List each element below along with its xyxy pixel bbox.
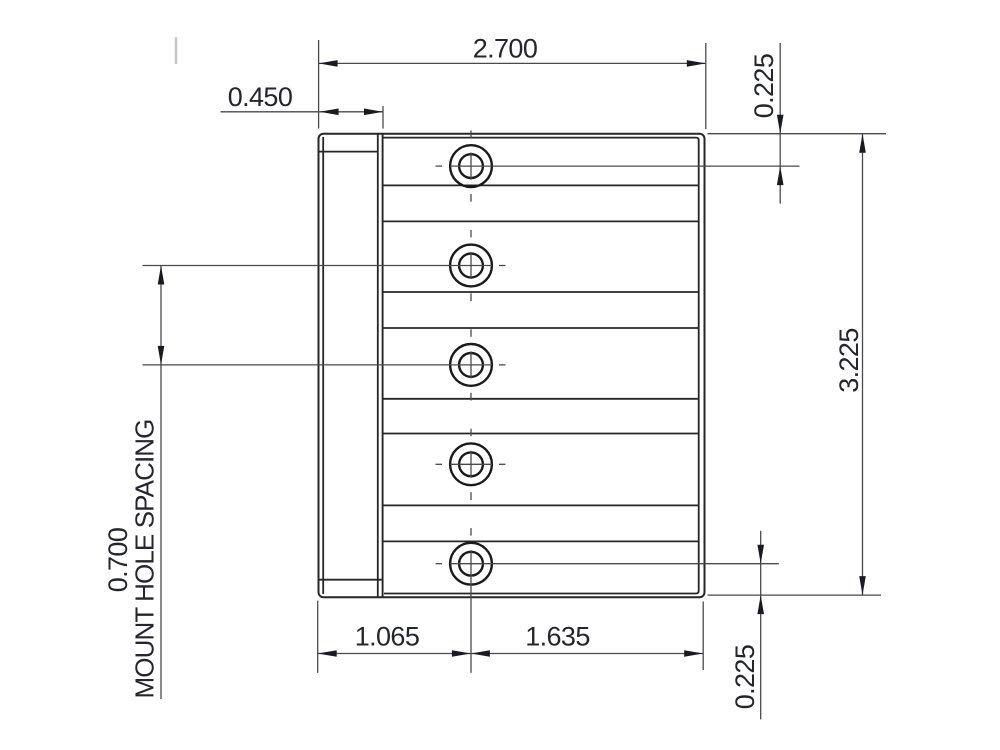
top edge extension line (right): [708, 133, 887, 135]
flange inner top bend line: [320, 151, 378, 153]
saddle groove line 2: [383, 220, 699, 222]
dimension 1.065/1.635 line: [318, 653, 704, 655]
svg-text:MOUNT HOLE SPACING: MOUNT HOLE SPACING: [130, 420, 160, 699]
hole 4: [450, 443, 492, 485]
dimension 1.635 arrows: [471, 650, 490, 657]
saddle groove line 6: [383, 433, 699, 435]
dimension 0.700 line (left): [160, 266, 162, 700]
svg-text:1.065: 1.065: [355, 622, 420, 652]
saddle groove line 5: [383, 398, 699, 400]
dimension 3.225 arrows: [859, 134, 866, 153]
hole 3: [450, 344, 492, 386]
dimension 2.700 line: [319, 62, 706, 64]
saddle groove line 3: [383, 291, 699, 293]
hole 1 centerlines: [436, 131, 800, 202]
flange inner left line: [322, 137, 324, 594]
dimension 1.065 arrows: [318, 650, 337, 657]
dimension 0.225 top line: [779, 43, 781, 204]
dimension 3.225 line: [862, 134, 864, 595]
saddle groove line 7: [383, 504, 699, 506]
saddle groove line 8: [383, 540, 699, 542]
dimension 0.450 extension line: [382, 106, 384, 129]
hole 2: [450, 245, 492, 287]
svg-text:1.635: 1.635: [525, 622, 590, 652]
plate outer outline: [319, 134, 705, 598]
saddle groove line 4: [383, 327, 699, 329]
bottom edge extension line (right): [708, 594, 882, 596]
hole 4 centerlines: [436, 429, 506, 500]
hole 1: [450, 145, 492, 187]
dimension 2.700 extension lines: [318, 40, 320, 129]
hole 5: [450, 543, 492, 585]
flange inner bottom bend line: [320, 579, 383, 581]
svg-text:0.225: 0.225: [730, 645, 760, 710]
saddle groove line 1: [383, 184, 699, 186]
dimension 1.065/1.635 extension lines: [317, 601, 319, 673]
dimension 0.700 arrows: [158, 266, 165, 285]
dimension 0.450 arrows: [320, 109, 339, 116]
hole 3 centerlines: [143, 329, 506, 400]
flange right edge double line: [377, 135, 379, 597]
hole 5 centerlines: [436, 528, 779, 673]
stray scan artifact line top-left: [175, 37, 178, 64]
svg-text:2.700: 2.700: [473, 34, 538, 64]
svg-text:3.225: 3.225: [834, 328, 864, 393]
dimension 0.225 top arrows: [777, 115, 784, 134]
svg-text:0.225: 0.225: [749, 54, 779, 119]
dimension 2.700 arrows: [319, 60, 338, 67]
dimension 0.450 line: [221, 111, 384, 113]
hole 2 centerlines: [143, 230, 506, 301]
plate inner offset edge (top/right/bottom): [383, 138, 699, 594]
dimension 0.225 bottom line: [760, 531, 762, 720]
svg-text:0.700: 0.700: [103, 528, 133, 593]
dimension 0.225 bottom arrows: [757, 545, 764, 564]
svg-text:0.450: 0.450: [228, 82, 293, 112]
